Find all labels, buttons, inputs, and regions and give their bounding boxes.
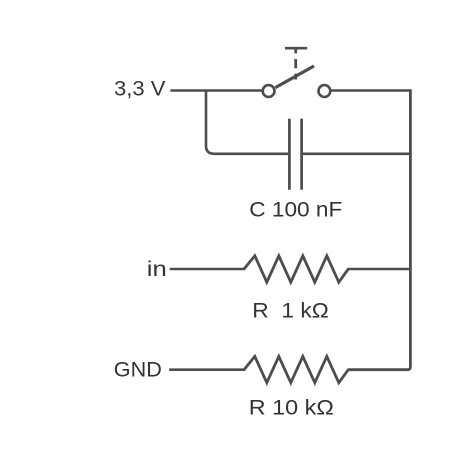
switch S1 lever — [275, 66, 314, 88]
wire from switch right contact to right bus — [331, 89, 411, 92]
svg-text:in: in — [147, 258, 167, 281]
svg-text:GND: GND — [114, 359, 162, 382]
resistor R2 10 kOhm zigzag — [244, 356, 348, 382]
wire from GND to resistor R2 — [169, 368, 245, 371]
wire from in to resistor R1 — [170, 268, 245, 271]
switch S1 button cap — [285, 47, 307, 50]
svg-text:R 1 kΩ: R 1 kΩ — [252, 299, 328, 322]
svg-text:C 100 nF: C 100 nF — [249, 199, 342, 222]
svg-text:R 10 kΩ: R 10 kΩ — [249, 396, 334, 419]
wire from resistor R1 to right bus — [348, 268, 412, 271]
switch S1 pushbutton left contact — [263, 85, 275, 97]
svg-text:3,3 V: 3,3 V — [114, 78, 166, 101]
resistor R1 1 kOhm zigzag — [244, 256, 348, 282]
wire right vertical bus — [348, 90, 411, 370]
switch S1 actuator stem (dashed) — [294, 49, 297, 79]
wire branch from 3,3 V node down to capacitor — [206, 90, 288, 154]
wire from capacitor right plate to right bus — [303, 153, 411, 156]
wire from 3,3 V to switch left contact — [170, 89, 261, 92]
capacitor C left plate — [288, 119, 291, 190]
capacitor C right plate — [300, 119, 303, 190]
switch S1 pushbutton right contact — [319, 85, 331, 97]
